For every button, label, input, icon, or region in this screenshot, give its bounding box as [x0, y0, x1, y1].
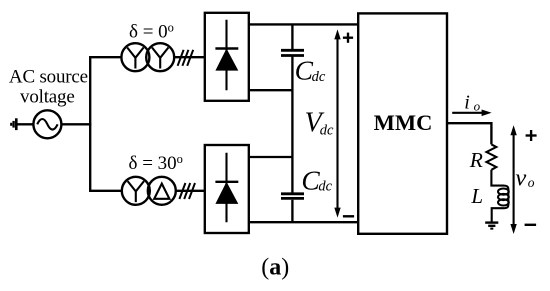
capacitor C1	[281, 50, 304, 55]
wire R to L	[491, 170, 504, 186]
transformer T1 (Y-Y)	[121, 43, 174, 71]
svg-text:(a): (a)	[261, 254, 289, 280]
resistor R	[487, 144, 497, 169]
diode D1	[215, 20, 238, 90]
wire T1 to slashes to rectifier	[174, 56, 205, 58]
wire rectifier2 plus to midpoint	[249, 156, 294, 158]
wire MMC output	[447, 123, 491, 144]
ground (left of AC source)	[11, 118, 16, 130]
svg-text:MMC: MMC	[374, 110, 433, 135]
svg-text:voltage: voltage	[20, 87, 75, 108]
svg-text:δ = 30o: δ = 30o	[129, 152, 183, 174]
wire top dc bus	[249, 23, 358, 25]
wire AC source to junction	[61, 123, 91, 125]
diode D2	[215, 153, 238, 222]
svg-text:R: R	[469, 148, 483, 172]
wire rectifier1 minus to midpoint	[249, 89, 294, 91]
minus sign (v_o)	[525, 224, 537, 226]
arrow i_o	[452, 110, 491, 117]
v_o measurement arrow	[510, 125, 516, 234]
wire L to ground	[492, 208, 504, 222]
rectifier box 1	[205, 13, 249, 101]
plus sign (v_o)	[526, 130, 537, 141]
wire vertical junction bus	[89, 56, 91, 192]
AC source V1	[33, 110, 61, 138]
V_dc measurement arrow	[334, 29, 340, 217]
capacitor C2	[281, 194, 304, 199]
transformer T2 (Y-Delta)	[122, 177, 176, 205]
label: AC source voltage	[9, 67, 88, 108]
three-phase slashes (bottom)	[179, 183, 195, 199]
wire junction to transformer T2	[89, 190, 122, 192]
wire T2 to slashes to rectifier	[176, 190, 205, 192]
three-phase slashes (top)	[178, 50, 194, 66]
ground (right)	[485, 223, 498, 229]
wire ground to AC source	[16, 123, 33, 125]
svg-text:AC source: AC source	[9, 67, 88, 88]
MMC block U1	[358, 13, 447, 233]
inductor L	[498, 186, 509, 209]
wire capacitor bus vertical	[291, 24, 293, 222]
plus sign (V_dc)	[343, 33, 353, 43]
wire junction to transformer T1	[89, 56, 121, 58]
rectifier box 2	[205, 145, 249, 233]
minus sign (V_dc)	[343, 215, 354, 217]
svg-text:L: L	[470, 184, 483, 208]
wire bottom dc bus	[249, 221, 358, 223]
svg-text:δ = 0o: δ = 0o	[129, 20, 174, 42]
